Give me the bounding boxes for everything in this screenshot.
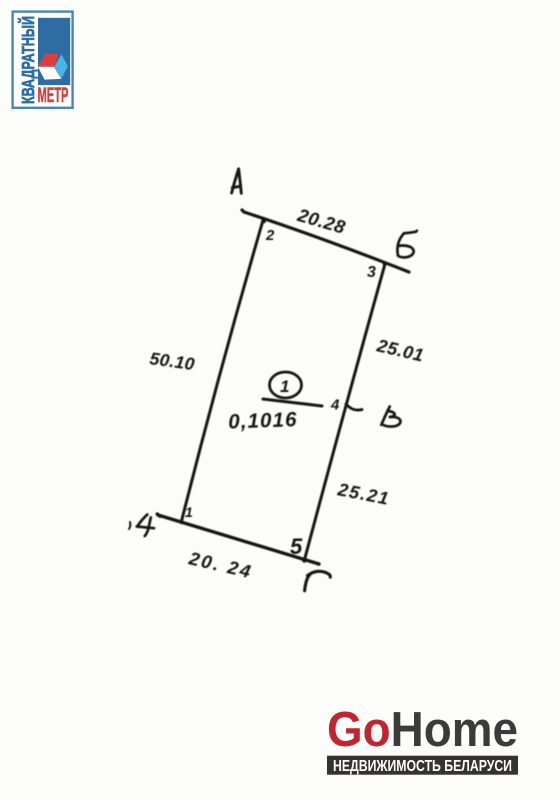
parcel number circle [270,372,302,398]
svg-text:МЕТР: МЕТР [38,83,69,107]
plot boundary 3-5 (right edge) [304,264,385,561]
vertex letter B (Б) [397,231,416,258]
vertex letter D (Д) [137,515,154,537]
ink dot start of top edge [243,211,246,214]
svg-text:0,1016: 0,1016 [228,408,298,433]
comma before D [129,522,130,529]
plot boundary 2-1 (left edge) [181,219,263,523]
svg-text:GoHome: GoHome [327,702,518,757]
GoHome logo dark bar [327,756,518,775]
logo Kvadratny Metr: outer border [13,12,73,108]
plot boundary D-G (bottom edge) [157,514,319,564]
svg-text:3: 3 [367,264,376,281]
ink blob end of bottom edge [317,562,321,566]
ink blob corner 1 [179,520,183,524]
logo Kvadratny Metr: cube cyan right face [54,54,68,79]
logo Kvadratny Metr: blue panel [38,18,70,85]
logo Kvadratny Metr: cube red top face [38,54,59,67]
ink blob corner 3 [383,262,387,266]
svg-text:5: 5 [290,534,303,559]
svg-text:4: 4 [330,397,340,414]
plot boundary A-B (top edge) [242,210,409,272]
tick at point 4 [346,404,362,410]
svg-text:1: 1 [280,377,289,396]
vertex letter V (В) [381,407,400,427]
svg-text:НЕДВИЖИМОСТЬ БЕЛАРУСИ: НЕДВИЖИМОСТЬ БЕЛАРУСИ [333,758,512,775]
logo Kvadratny Metr: cube white left face [38,67,61,80]
svg-text:2: 2 [265,227,275,244]
ink blob corner 5 [302,558,306,562]
ink blob corner 2 [262,220,266,224]
vertex letter G (Г) [305,571,331,590]
underline of area value [263,399,322,406]
svg-text:КВАДРАТНЫЙ: КВАДРАТНЫЙ [17,16,38,104]
vertex letter A [232,169,242,193]
svg-text:1: 1 [185,504,193,520]
